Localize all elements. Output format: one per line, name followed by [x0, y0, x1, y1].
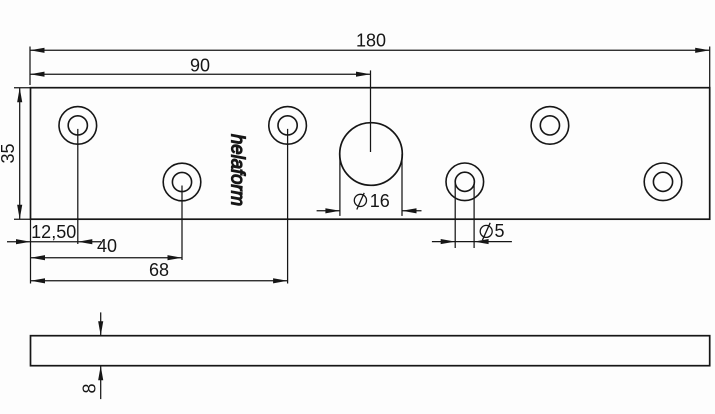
- plate outline (top view 180x35): [31, 88, 710, 220]
- label Ø16 diameter symbol: [354, 193, 366, 210]
- arrow Ø5 right (outside): [474, 239, 489, 244]
- svg-text:90: 90: [190, 56, 210, 76]
- arrow 35 top: [17, 88, 22, 103]
- extension line left edge bottom: [30, 219, 32, 283]
- svg-text:180: 180: [356, 31, 386, 51]
- arrow 12,50 right (outside): [78, 239, 93, 244]
- arrow Ø16 left (outside): [325, 208, 340, 213]
- arrow 180 left: [30, 48, 45, 53]
- hole H1 bore: [68, 116, 87, 135]
- arrow Ø5 left (outside): [441, 239, 456, 244]
- hole H5 counterbore: [531, 107, 569, 145]
- dim line 12,50: [7, 241, 101, 243]
- hole H2 bore: [172, 172, 191, 191]
- dim line 180: [30, 49, 710, 51]
- arrow 68 left: [31, 278, 46, 283]
- extension line 35 top: [14, 87, 31, 89]
- extension line right edge top: [709, 47, 711, 88]
- dim line 68: [31, 280, 288, 282]
- dim line 8 bottom: [100, 366, 102, 399]
- svg-text:40: 40: [97, 236, 117, 256]
- arrow 35 bottom: [17, 205, 22, 220]
- hole H1 counterbore: [59, 107, 97, 145]
- hole H6 counterbore: [644, 163, 682, 201]
- arrow 40 left: [31, 255, 46, 260]
- dim line 35: [19, 88, 21, 219]
- extension line hole H2 column: [181, 186, 183, 261]
- svg-text:helaform: helaform: [227, 134, 248, 206]
- arrow 8 bottom (outside, pointing up): [98, 366, 103, 381]
- svg-text:35: 35: [0, 143, 18, 163]
- dim line 40: [31, 257, 183, 259]
- hole H2 counterbore: [163, 163, 201, 201]
- hole H3 counterbore: [269, 107, 307, 145]
- dim line Ø16 left tail: [317, 210, 340, 212]
- extension line Ø16 right: [401, 154, 403, 216]
- arrow 8 top (outside, pointing down): [98, 321, 103, 336]
- extension line left edge top: [29, 47, 31, 86]
- extension line Ø5 left: [454, 182, 456, 248]
- extension line hole H1 column: [77, 129, 79, 244]
- arrow Ø16 right (outside): [402, 208, 417, 213]
- center hole Ø16: [340, 123, 403, 186]
- hole H4 bore Ø5: [455, 172, 474, 191]
- svg-text:5: 5: [495, 221, 505, 241]
- extension line Ø16 left: [339, 154, 341, 216]
- extension line Ø5 right: [473, 182, 475, 248]
- side view plate (thickness 8): [31, 336, 710, 366]
- arrow 90 left: [30, 72, 45, 77]
- svg-text:68: 68: [149, 260, 169, 280]
- svg-text:12,50: 12,50: [31, 222, 76, 242]
- hole H6 bore: [653, 172, 672, 191]
- extension line hole H3 column: [287, 129, 289, 284]
- dim line Ø5: [432, 241, 512, 243]
- dim line Ø16 right tail: [402, 210, 422, 212]
- dim line 90: [30, 73, 371, 75]
- arrow 68 right: [273, 278, 288, 283]
- svg-text:16: 16: [370, 191, 390, 211]
- extension line 35 bottom: [14, 218, 31, 220]
- svg-text:8: 8: [80, 383, 100, 393]
- arrow 40 right: [168, 255, 183, 260]
- extension line center hole column: [370, 70, 372, 152]
- arrow 12,50 left (outside): [16, 239, 31, 244]
- arrow 90 right: [356, 72, 371, 77]
- label Ø5 diameter symbol: [480, 223, 492, 240]
- arrow 180 right: [695, 48, 710, 53]
- hole H4 counterbore: [446, 163, 484, 201]
- hole H3 bore: [278, 116, 297, 135]
- hole H5 bore: [540, 116, 559, 135]
- dim line 8 top: [100, 312, 102, 335]
